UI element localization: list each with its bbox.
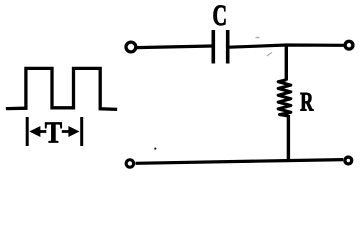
terminal top-right [345,41,353,49]
faint smudge near junction [267,52,272,56]
capacitor C right plate [226,30,230,64]
period marker right arrow [62,126,80,137]
period marker left arrow [29,126,46,137]
speck [154,148,156,150]
bottom wire [136,160,344,164]
terminal bottom-left [126,160,134,168]
svg-text:C: C [212,0,226,32]
period marker right tick [80,117,83,146]
svg-text:T: T [45,116,62,151]
period marker left tick [26,117,29,146]
svg-text:R: R [300,87,314,116]
terminal top-left [126,42,136,52]
wire junction to resistor [285,44,288,81]
terminal bottom-right [345,157,352,164]
wire capacitor to top-right terminal [230,45,344,47]
resistor R [278,80,291,116]
capacitor C left plate [212,30,216,64]
input square-wave waveform [8,68,116,109]
wire resistor to bottom wire [287,115,290,162]
wire top-left terminal to capacitor [137,46,212,48]
faint smudge [255,37,259,39]
